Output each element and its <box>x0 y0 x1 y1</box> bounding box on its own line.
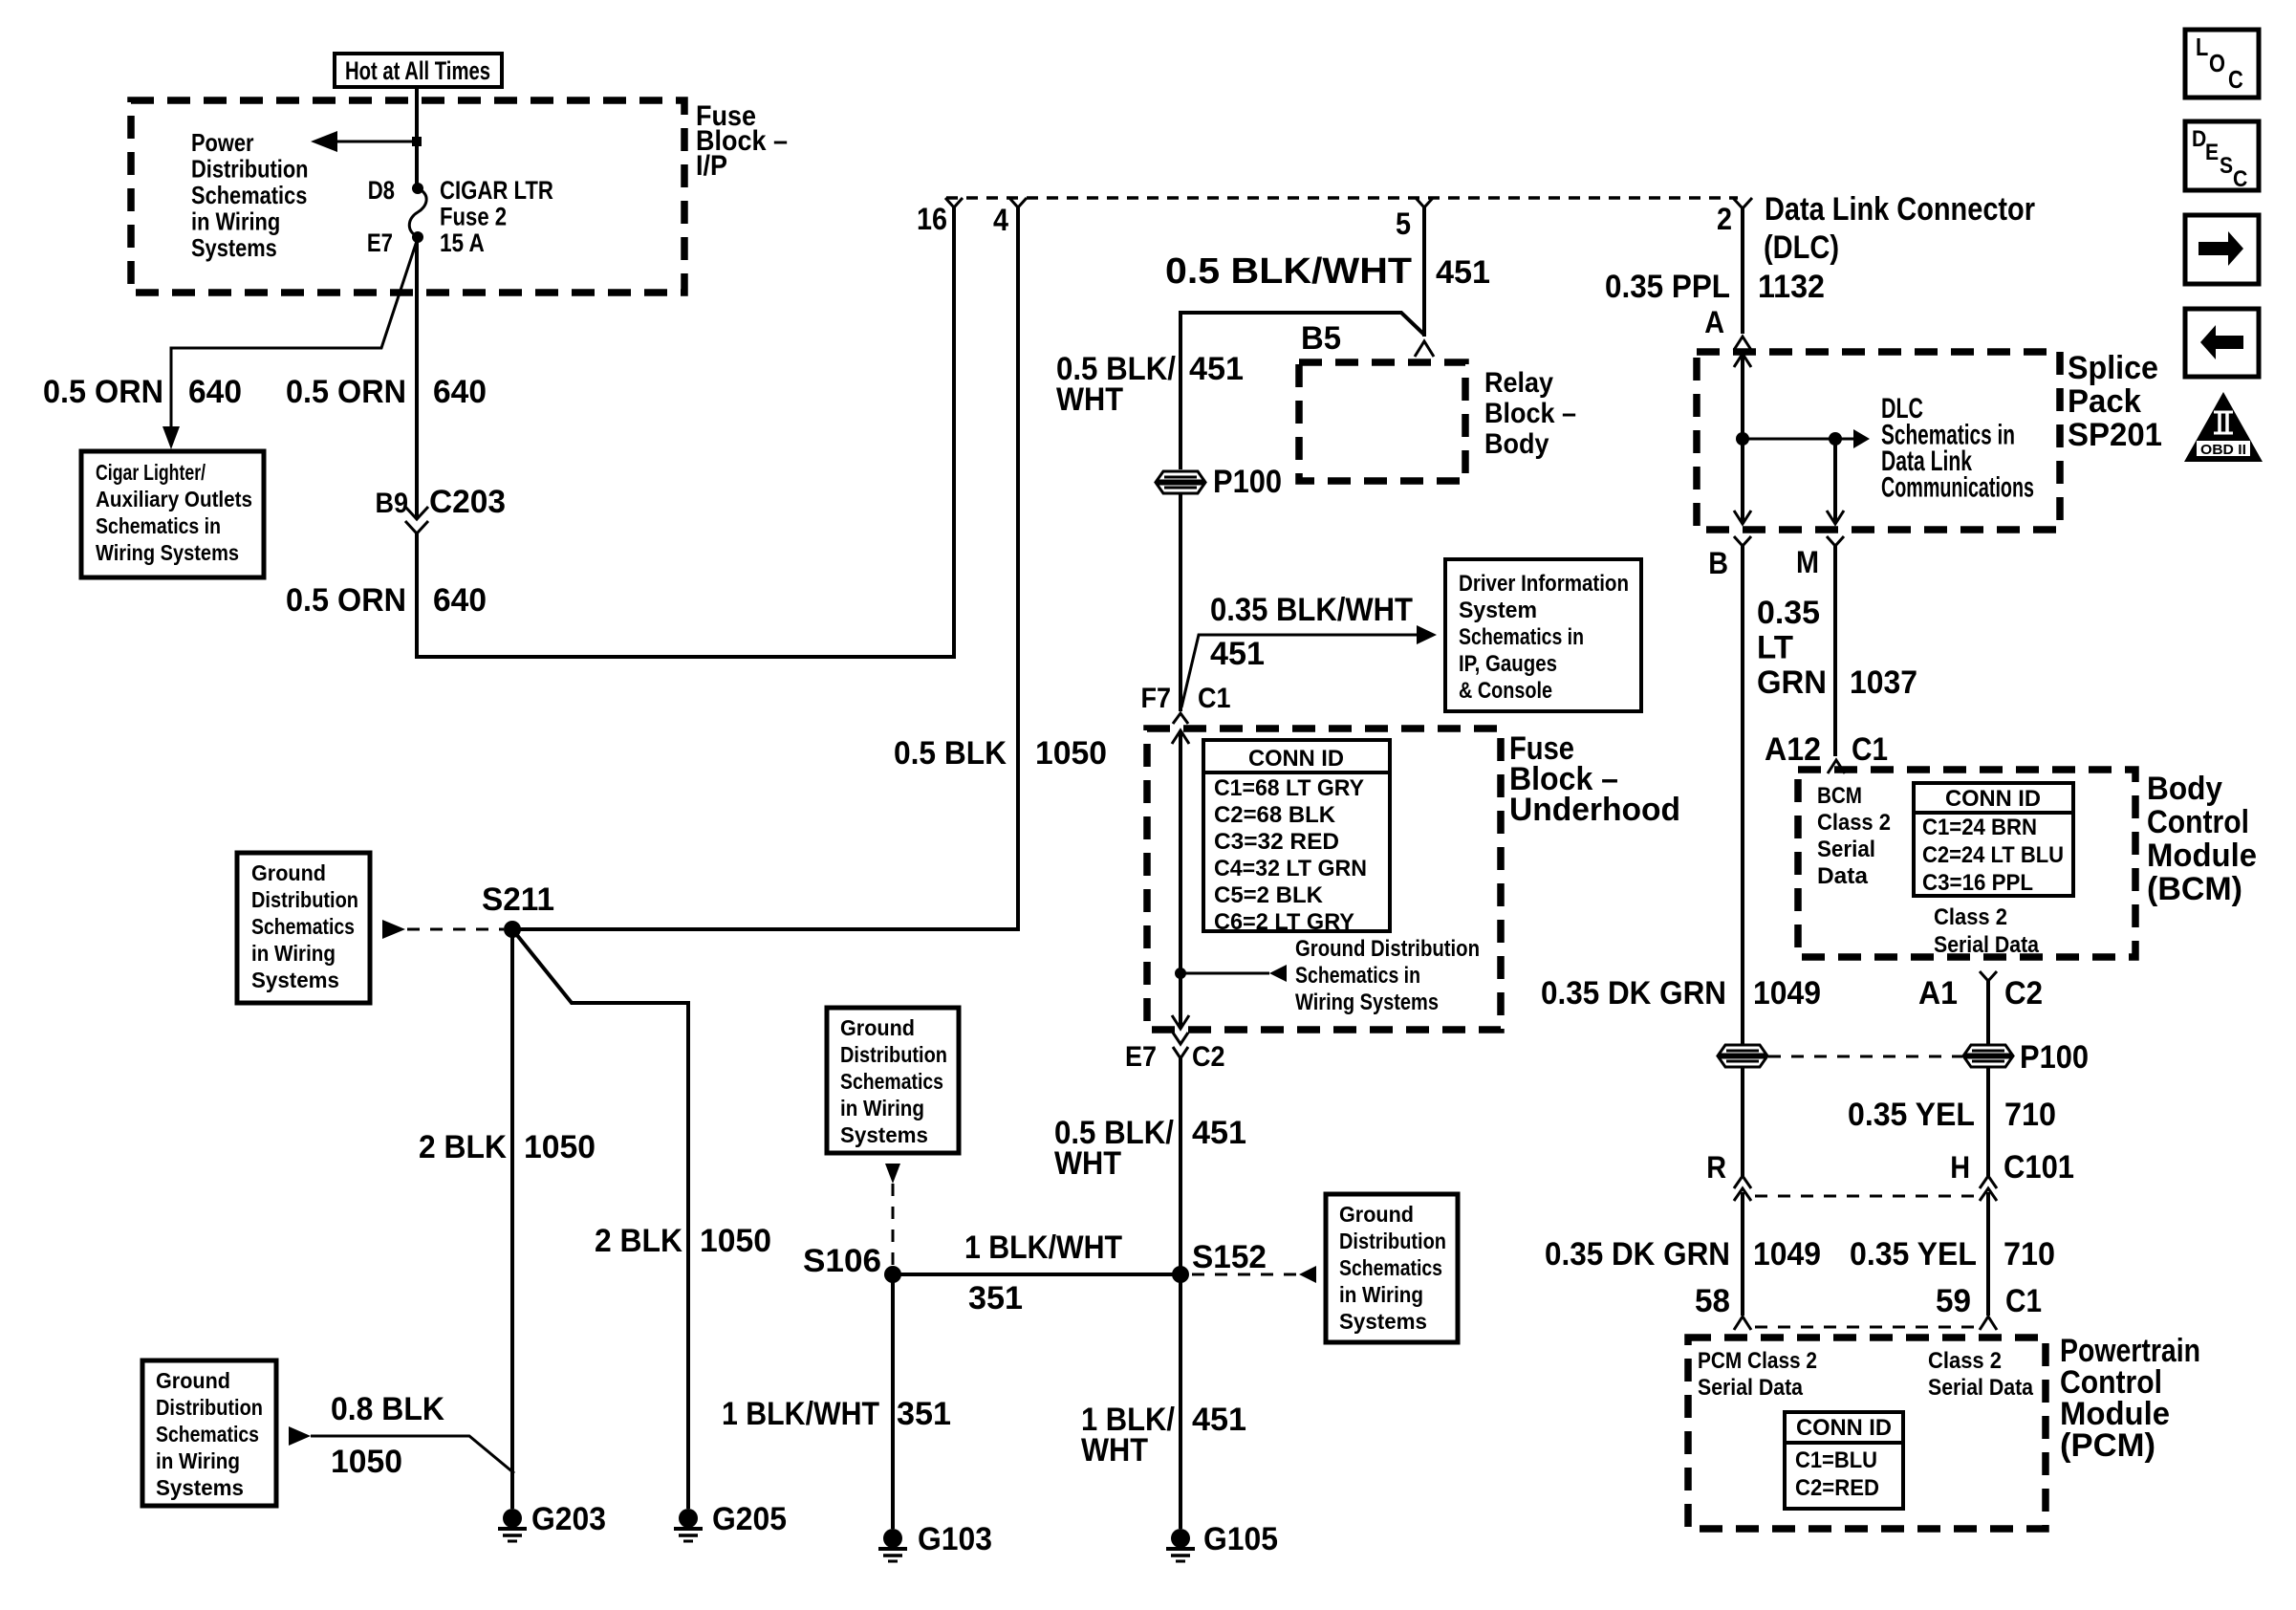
svg-text:Cigar Lighter/: Cigar Lighter/ <box>96 460 206 485</box>
icon LOC box <box>2185 30 2259 98</box>
svg-text:0.35 BLK/WHT: 0.35 BLK/WHT <box>1210 592 1413 628</box>
icon OBD II triangle <box>2184 392 2263 462</box>
svg-text:351: 351 <box>968 1280 1023 1316</box>
note box Ground Distribution at S106 <box>827 1008 959 1153</box>
svg-text:0.35 YEL: 0.35 YEL <box>1850 1236 1977 1273</box>
svg-text:Ground: Ground <box>1339 1202 1414 1227</box>
svg-text:1049: 1049 <box>1753 975 1821 1012</box>
svg-text:in Wiring: in Wiring <box>1339 1282 1423 1307</box>
svg-text:451: 451 <box>1189 351 1244 387</box>
svg-text:451: 451 <box>1436 254 1490 291</box>
icon arrow left box <box>2185 309 2259 377</box>
wire E7 down to connector C203 <box>415 237 419 517</box>
wire C203 down right and up to DLC pin 16 <box>417 207 954 657</box>
svg-text:1050: 1050 <box>331 1444 402 1480</box>
wire S106 to S152 <box>893 1273 1180 1276</box>
connector Y at DLC pin 16 <box>945 198 963 207</box>
svg-text:Control: Control <box>2147 804 2249 840</box>
svg-text:Underhood: Underhood <box>1509 792 1680 828</box>
svg-text:G103: G103 <box>918 1521 992 1557</box>
svg-text:B5: B5 <box>1301 320 1341 357</box>
svg-text:A: A <box>1704 305 1724 339</box>
label Hot at All Times <box>335 54 502 87</box>
junction node on feed wire <box>412 137 422 146</box>
relay block body dashed box <box>1299 362 1465 481</box>
note box Cigar Lighter / Auxiliary Outlets <box>81 451 264 577</box>
svg-text:G205: G205 <box>712 1501 787 1537</box>
svg-text:P100: P100 <box>2020 1039 2089 1076</box>
svg-text:451: 451 <box>1210 636 1265 672</box>
note box Ground Distribution at 0.8 BLK <box>142 1360 276 1506</box>
svg-text:C3=16 PPL: C3=16 PPL <box>1922 870 2033 896</box>
svg-text:Distribution: Distribution <box>191 155 309 184</box>
splice S211 <box>504 921 521 938</box>
svg-text:Ground Distribution: Ground Distribution <box>1295 936 1480 962</box>
svg-text:0.35 YEL: 0.35 YEL <box>1848 1097 1975 1133</box>
svg-text:640: 640 <box>433 582 487 619</box>
reference arrow dashed up from S106 <box>892 1184 895 1266</box>
svg-text:Hot at All Times: Hot at All Times <box>345 56 490 85</box>
svg-text:0.5 BLK/WHT: 0.5 BLK/WHT <box>1165 251 1412 292</box>
svg-text:SP201: SP201 <box>2068 417 2162 453</box>
svg-text:C203: C203 <box>429 484 506 520</box>
svg-text:C1: C1 <box>2005 1283 2042 1319</box>
svg-text:S106: S106 <box>803 1243 881 1279</box>
svg-text:in Wiring: in Wiring <box>840 1096 924 1120</box>
wire H down to PCM 59 <box>1986 1192 1990 1316</box>
connector Y at DLC pin 5 <box>1416 198 1433 207</box>
svg-text:Data Link Connector: Data Link Connector <box>1765 191 2035 228</box>
connector Y at DLC pin 4 <box>1009 198 1027 207</box>
svg-text:C1=24 BRN: C1=24 BRN <box>1922 815 2037 840</box>
wire from Hot at All Times to fuse D8 <box>415 87 419 188</box>
svg-text:S211: S211 <box>482 881 554 918</box>
svg-text:1 BLK/WHT: 1 BLK/WHT <box>722 1396 879 1432</box>
svg-text:Schematics in: Schematics in <box>1459 624 1584 650</box>
reference arrow Ground Distribution inside underhood box <box>1175 968 1186 979</box>
svg-text:1037: 1037 <box>1850 664 1917 701</box>
branch arrow to Driver Information note <box>1181 635 1417 707</box>
svg-text:1049: 1049 <box>1753 1236 1821 1273</box>
wire inside splice pack left leg <box>1741 354 1744 524</box>
svg-text:640: 640 <box>433 374 487 410</box>
svg-text:1050: 1050 <box>1035 735 1107 772</box>
svg-text:0.35 DK GRN: 0.35 DK GRN <box>1545 1236 1730 1273</box>
svg-text:PCM Class 2: PCM Class 2 <box>1698 1348 1817 1374</box>
svg-text:Block –: Block – <box>1484 398 1576 429</box>
svg-text:I/P: I/P <box>696 150 727 182</box>
svg-text:710: 710 <box>2004 1236 2055 1273</box>
svg-text:Systems: Systems <box>156 1475 244 1500</box>
svg-text:CIGAR LTR: CIGAR LTR <box>440 176 553 205</box>
svg-text:Systems: Systems <box>840 1122 928 1147</box>
note box Driver Information System <box>1445 559 1641 711</box>
svg-text:C6=2 LT GRY: C6=2 LT GRY <box>1214 909 1354 935</box>
svg-text:Class 2: Class 2 <box>1934 904 2007 930</box>
wire P100 down to H <box>1986 1067 1990 1176</box>
svg-text:Driver Information: Driver Information <box>1459 571 1629 597</box>
svg-text:GRN: GRN <box>1757 664 1827 701</box>
svg-text:in Wiring: in Wiring <box>156 1448 240 1473</box>
svg-text:E7: E7 <box>1125 1041 1157 1073</box>
splice S106 <box>884 1266 901 1283</box>
svg-text:C3=32 RED: C3=32 RED <box>1214 829 1339 855</box>
svg-text:WHT: WHT <box>1081 1432 1148 1469</box>
svg-text:5: 5 <box>1396 207 1411 241</box>
dashed tie C101 <box>1755 1195 1975 1198</box>
svg-text:E7: E7 <box>367 228 393 257</box>
svg-text:BCM: BCM <box>1817 783 1862 809</box>
svg-text:4: 4 <box>993 203 1008 237</box>
wire DLC pin 5 down to B5 <box>1422 207 1426 337</box>
CONN ID table PCM <box>1785 1412 1903 1509</box>
wire branch from B5 to P100 <box>1180 313 1424 469</box>
connector Y at DLC pin 2 <box>1733 198 1752 208</box>
reference arrow Ground Distribution at S152 <box>1192 1273 1297 1276</box>
fuse block I/P dashed box <box>131 100 684 293</box>
svg-text:0.35 PPL: 0.35 PPL <box>1605 269 1730 305</box>
arrow into cigar lighter note box <box>162 426 180 449</box>
wire S106 to G103 <box>891 1274 895 1529</box>
wire DLC pin 4 down to S211 <box>512 207 1018 929</box>
wire P100 down to R <box>1741 1067 1744 1176</box>
svg-text:Ground: Ground <box>156 1368 230 1393</box>
svg-text:CONN ID: CONN ID <box>1248 746 1344 772</box>
svg-text:C: C <box>2228 65 2243 94</box>
ground G105 <box>1171 1529 1190 1548</box>
svg-text:0.35 DK GRN: 0.35 DK GRN <box>1541 975 1726 1012</box>
svg-text:C2: C2 <box>2004 975 2043 1012</box>
CONN ID table BCM <box>1914 783 2073 896</box>
wire from E7 to cigar lighter reference <box>171 238 418 426</box>
fuse block underhood dashed box <box>1147 729 1501 1030</box>
svg-text:& Console: & Console <box>1459 678 1552 704</box>
svg-text:C2=68 BLK: C2=68 BLK <box>1214 802 1336 828</box>
svg-text:Splice: Splice <box>2068 350 2158 386</box>
svg-text:Wiring Systems: Wiring Systems <box>96 540 239 565</box>
svg-text:710: 710 <box>2004 1097 2056 1133</box>
svg-text:2: 2 <box>1717 202 1732 236</box>
junction dot splice left leg <box>1736 432 1749 446</box>
note box Ground Distribution at S211 <box>237 853 370 1003</box>
svg-text:Fuse 2: Fuse 2 <box>440 203 507 231</box>
svg-text:Serial Data: Serial Data <box>1934 932 2040 958</box>
arrow to Power Distribution note <box>336 141 417 143</box>
wire S211 to G205 <box>512 929 688 1509</box>
svg-text:in Wiring: in Wiring <box>251 941 336 966</box>
svg-text:Module: Module <box>2147 838 2257 874</box>
splice crossbar arrow to DLC note <box>1743 438 1853 441</box>
svg-text:Schematics: Schematics <box>840 1069 943 1094</box>
svg-text:451: 451 <box>1192 1115 1246 1151</box>
svg-text:WHT: WHT <box>1056 381 1123 418</box>
svg-text:Communications: Communications <box>1881 472 2034 504</box>
svg-text:0.5 ORN: 0.5 ORN <box>286 582 406 619</box>
svg-text:Pack: Pack <box>2068 383 2141 420</box>
svg-text:451: 451 <box>1192 1402 1246 1438</box>
wire DLC pin 2 down to splice pack <box>1741 208 1744 334</box>
svg-text:A1: A1 <box>1918 975 1958 1012</box>
svg-text:Serial: Serial <box>1817 837 1875 862</box>
note box Ground Distribution at S152 <box>1326 1194 1458 1342</box>
wire inside splice pack right leg <box>1833 439 1837 524</box>
svg-text:O: O <box>2209 49 2225 77</box>
svg-text:1050: 1050 <box>700 1223 771 1259</box>
dashed tie PCM connector <box>1755 1326 1975 1329</box>
svg-text:OBD II: OBD II <box>2200 442 2246 458</box>
svg-text:Serial Data: Serial Data <box>1698 1375 1804 1401</box>
svg-text:C2=24 LT BLU: C2=24 LT BLU <box>1922 842 2064 868</box>
svg-text:0.35: 0.35 <box>1757 595 1820 631</box>
svg-text:Power: Power <box>191 128 254 157</box>
svg-text:59: 59 <box>1936 1283 1971 1319</box>
svg-text:16: 16 <box>917 202 947 236</box>
svg-text:Class 2: Class 2 <box>1928 1348 2002 1374</box>
svg-text:1050: 1050 <box>524 1129 596 1165</box>
svg-text:Body: Body <box>2147 771 2222 807</box>
svg-text:C2: C2 <box>1192 1041 1225 1073</box>
svg-text:C5=2 BLK: C5=2 BLK <box>1214 882 1324 908</box>
svg-text:C1: C1 <box>1198 683 1231 714</box>
svg-text:C1: C1 <box>1852 731 1888 768</box>
pass-through grommet P100 right of pair <box>1964 1045 2012 1067</box>
svg-text:2 BLK: 2 BLK <box>419 1129 507 1165</box>
fuse CIGAR LTR Fuse 2 15 A <box>409 188 426 237</box>
svg-text:S152: S152 <box>1192 1239 1267 1275</box>
svg-text:System: System <box>1459 598 1537 623</box>
svg-text:C2=RED: C2=RED <box>1795 1475 1879 1501</box>
svg-text:15 A: 15 A <box>440 228 485 257</box>
svg-text:S: S <box>2220 153 2233 179</box>
svg-text:LT: LT <box>1757 630 1793 666</box>
wire P100 down to F7 <box>1179 493 1182 711</box>
svg-text:(PCM): (PCM) <box>2060 1427 2155 1464</box>
svg-text:D: D <box>2192 126 2206 152</box>
svg-text:58: 58 <box>1695 1283 1730 1319</box>
DLC dashed connector face bus <box>946 196 1738 200</box>
svg-text:F7: F7 <box>1141 683 1172 714</box>
svg-text:Body: Body <box>1484 428 1549 460</box>
svg-text:0.5 BLK: 0.5 BLK <box>894 735 1007 772</box>
svg-text:Class 2: Class 2 <box>1817 810 1891 836</box>
wire splice M down to BCM A12 <box>1833 546 1837 756</box>
svg-text:Schematics in: Schematics in <box>96 513 221 538</box>
svg-text:C4=32 LT GRN: C4=32 LT GRN <box>1214 856 1367 881</box>
svg-text:Systems: Systems <box>191 233 277 262</box>
svg-text:Ground: Ground <box>251 860 326 885</box>
svg-text:CONN ID: CONN ID <box>1945 786 2041 812</box>
svg-text:L: L <box>2196 33 2208 61</box>
svg-text:CONN ID: CONN ID <box>1796 1415 1892 1441</box>
icon arrow right box <box>2185 215 2259 284</box>
svg-text:H: H <box>1950 1150 1970 1185</box>
svg-text:Systems: Systems <box>1339 1309 1427 1334</box>
CONN ID table underhood <box>1203 740 1390 931</box>
svg-text:640: 640 <box>188 374 242 410</box>
svg-text:(DLC): (DLC) <box>1764 229 1839 266</box>
pass-through grommet P100 left of pair <box>1719 1045 1766 1067</box>
splice pack SP201 dashed box <box>1697 352 2060 530</box>
svg-text:Distribution: Distribution <box>840 1042 947 1067</box>
svg-text:0.5 ORN: 0.5 ORN <box>286 374 406 410</box>
wire through underhood fuse block <box>1179 730 1182 1029</box>
svg-text:in Wiring: in Wiring <box>191 207 280 236</box>
svg-text:Schematics: Schematics <box>191 181 307 209</box>
svg-text:A12: A12 <box>1765 731 1821 768</box>
pass-through grommet P100 left <box>1157 471 1204 493</box>
svg-text:B: B <box>1708 546 1728 580</box>
BCM dashed box <box>1798 770 2135 957</box>
svg-text:C: C <box>2233 166 2247 192</box>
svg-text:2 BLK: 2 BLK <box>595 1223 682 1259</box>
PCM dashed box <box>1688 1338 2046 1529</box>
svg-text:P100: P100 <box>1213 464 1282 500</box>
svg-text:1 BLK/WHT: 1 BLK/WHT <box>964 1229 1122 1266</box>
svg-text:Data: Data <box>1817 863 1869 889</box>
svg-text:Schematics: Schematics <box>156 1422 259 1447</box>
svg-text:D8: D8 <box>368 176 395 205</box>
svg-text:Distribution: Distribution <box>156 1395 263 1420</box>
svg-text:Schematics: Schematics <box>1339 1255 1442 1280</box>
svg-text:C1=68 LT GRY: C1=68 LT GRY <box>1214 775 1364 801</box>
svg-text:0.8 BLK: 0.8 BLK <box>331 1391 444 1427</box>
svg-text:Serial Data: Serial Data <box>1928 1375 2034 1401</box>
svg-text:WHT: WHT <box>1054 1145 1121 1182</box>
wire splice B down to P100 <box>1741 546 1744 1044</box>
svg-text:G203: G203 <box>531 1501 606 1537</box>
svg-text:Wiring Systems: Wiring Systems <box>1295 990 1439 1015</box>
ground G203 <box>503 1509 522 1528</box>
svg-text:Schematics in: Schematics in <box>1295 963 1420 989</box>
svg-text:Auxiliary Outlets: Auxiliary Outlets <box>96 487 252 511</box>
svg-text:IP, Gauges: IP, Gauges <box>1459 651 1557 677</box>
svg-text:R: R <box>1706 1150 1726 1185</box>
svg-text:E: E <box>2205 140 2219 165</box>
svg-text:1132: 1132 <box>1758 269 1825 305</box>
svg-text:Distribution: Distribution <box>1339 1229 1446 1253</box>
svg-text:Schematics: Schematics <box>251 914 355 939</box>
svg-text:B9: B9 <box>376 488 409 519</box>
svg-text:G105: G105 <box>1203 1521 1278 1557</box>
reference arrow to S211 <box>407 928 504 931</box>
svg-text:M: M <box>1796 545 1819 579</box>
svg-text:0.5 ORN: 0.5 ORN <box>43 374 163 410</box>
svg-text:C1=BLU: C1=BLU <box>1795 1447 1877 1473</box>
svg-text:Systems: Systems <box>251 968 339 992</box>
wire C2 down to S152 and G105 <box>1179 1058 1182 1529</box>
svg-text:(BCM): (BCM) <box>2147 871 2242 907</box>
reference arrow 0.8 BLK 1050 wire <box>289 1426 311 1446</box>
splice S152 <box>1172 1266 1189 1283</box>
icon DESC box <box>2185 121 2259 190</box>
svg-text:Relay: Relay <box>1484 367 1553 399</box>
svg-text:C101: C101 <box>2004 1149 2074 1186</box>
wire R down to PCM 58 <box>1741 1192 1744 1316</box>
wire S211 to G203 <box>510 929 514 1509</box>
svg-text:Ground: Ground <box>840 1015 915 1040</box>
wire BCM A1 down to P100 <box>1986 981 1990 1044</box>
ground G103 <box>883 1529 902 1548</box>
svg-text:Distribution: Distribution <box>251 887 358 912</box>
dashed tie between P100 grommets <box>1768 1055 1962 1058</box>
svg-text:351: 351 <box>897 1396 951 1432</box>
ground G205 <box>679 1509 698 1528</box>
